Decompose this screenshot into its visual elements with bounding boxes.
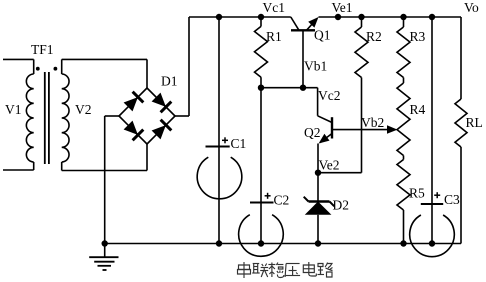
transistor Q2 <box>318 116 332 173</box>
svg-text:Vb2: Vb2 <box>361 115 384 130</box>
plus C3 <box>434 194 440 196</box>
node C1 top <box>216 14 222 20</box>
svg-text:V1: V1 <box>5 102 22 117</box>
node C1 bottom <box>216 240 222 246</box>
node R1 bottom <box>258 85 264 91</box>
svg-text:Vc2: Vc2 <box>318 88 341 103</box>
resistor RL <box>455 17 467 244</box>
node R2 top <box>358 14 364 20</box>
zener diode D2 <box>304 173 335 244</box>
wire top rail left segment <box>189 16 291 18</box>
wire bottom rail <box>105 243 461 245</box>
bridge rectifier D1 <box>119 88 175 144</box>
svg-text:Q2: Q2 <box>304 125 321 140</box>
wire bridge- down <box>105 115 119 117</box>
svg-text:R3: R3 <box>410 29 426 44</box>
svg-text:TF1: TF1 <box>31 42 54 57</box>
wire top rail right segment <box>319 16 462 18</box>
node C3 bottom <box>429 240 435 246</box>
capacitor C1 <box>197 17 242 244</box>
svg-text:Vc1: Vc1 <box>263 0 286 15</box>
svg-text:D2: D2 <box>333 198 350 213</box>
capacitor C2 <box>239 88 284 257</box>
capacitor C3 <box>410 17 455 257</box>
resistor R1 <box>255 17 268 88</box>
resistor R2 <box>355 17 368 173</box>
svg-text:R2: R2 <box>366 29 382 44</box>
node Ve1 <box>335 14 341 20</box>
svg-text:Ve1: Ve1 <box>332 0 353 15</box>
node R5 bottom <box>400 240 406 246</box>
svg-text:R5: R5 <box>409 186 425 201</box>
plus C2 <box>265 195 271 197</box>
svg-text:Ve2: Ve2 <box>319 158 340 173</box>
resistor R3 <box>397 17 410 83</box>
node Vc1 <box>258 14 264 20</box>
plus C1 <box>222 139 228 141</box>
wire Ve2 to R2 bottom <box>318 172 362 174</box>
svg-text:Vo: Vo <box>464 0 479 15</box>
wire R1 to Q1 base <box>261 87 318 89</box>
node R3 top <box>400 14 406 20</box>
wire Vc2 <box>317 88 319 116</box>
node C3 top <box>429 14 435 20</box>
node ground <box>102 240 108 246</box>
svg-text:RL: RL <box>466 115 483 130</box>
svg-text:D1: D1 <box>161 74 178 89</box>
svg-text:R1: R1 <box>266 29 282 44</box>
wire secondary bottom to bridge <box>62 170 147 172</box>
svg-text:R4: R4 <box>410 102 426 117</box>
svg-text:C2: C2 <box>274 193 290 208</box>
svg-text:Vb1: Vb1 <box>304 59 327 74</box>
wire Q2 base to R4 wiper <box>332 129 391 131</box>
wire bridge+ to top rail <box>175 115 189 117</box>
potentiometer R4 <box>397 83 410 156</box>
svg-text:C1: C1 <box>231 136 247 151</box>
svg-text:Q1: Q1 <box>314 28 331 43</box>
node Q1 base <box>300 85 306 91</box>
transistor Q1 <box>291 17 319 88</box>
wire secondary top to bridge <box>62 58 147 60</box>
node Ve2 <box>315 170 321 176</box>
svg-text:C3: C3 <box>444 192 460 207</box>
caption 串联稳压电路 <box>238 262 333 278</box>
resistor R5 <box>397 156 410 244</box>
svg-text:V2: V2 <box>75 102 92 117</box>
transformer TF1 <box>3 59 69 170</box>
wiper arrow Vb2 <box>387 125 398 134</box>
node D2 bottom <box>315 240 321 246</box>
ground <box>89 244 118 271</box>
node C2 bottom <box>258 240 264 246</box>
